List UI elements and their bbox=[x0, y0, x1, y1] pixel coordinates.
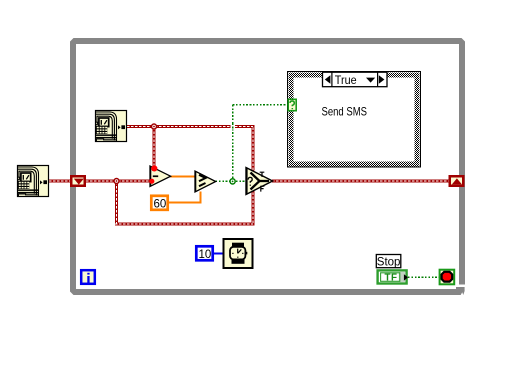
svg-text:TF: TF bbox=[385, 272, 398, 283]
svg-text:True: True bbox=[335, 75, 357, 87]
svg-text:Stop: Stop bbox=[377, 256, 401, 268]
svg-text:Send SMS: Send SMS bbox=[322, 104, 368, 118]
svg-text:60: 60 bbox=[154, 198, 167, 210]
svg-text:10: 10 bbox=[199, 249, 212, 261]
